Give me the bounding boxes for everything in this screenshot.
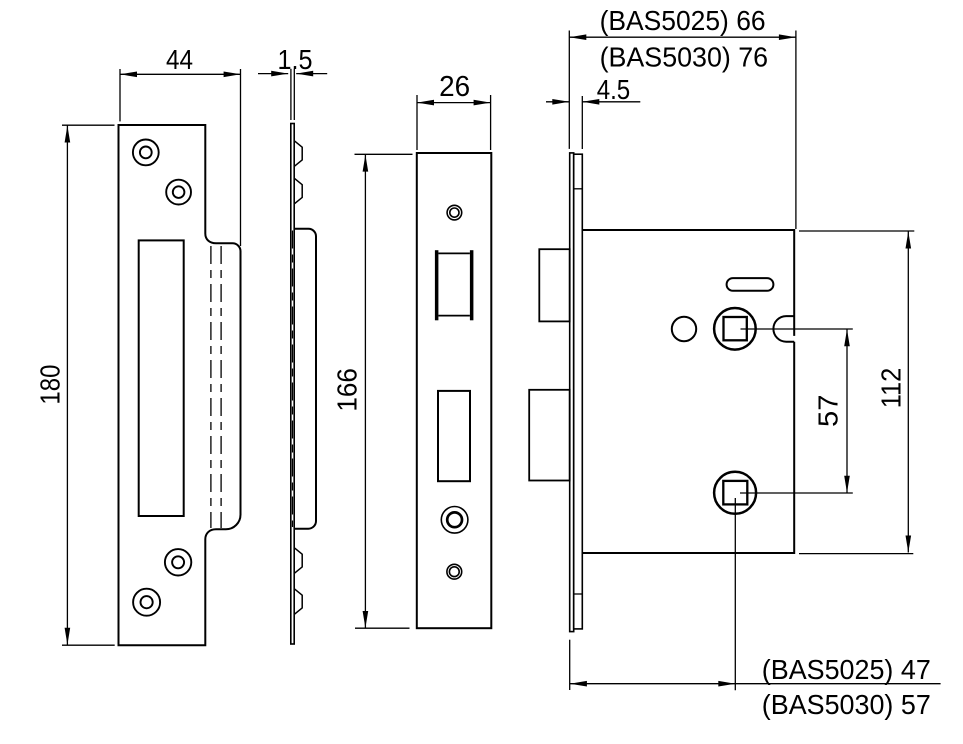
svg-text:57: 57 — [813, 394, 844, 427]
svg-text:180: 180 — [35, 365, 66, 405]
svg-text:(BAS5030) 76: (BAS5030) 76 — [600, 42, 769, 73]
svg-text:(BAS5025) 66: (BAS5025) 66 — [600, 5, 766, 36]
svg-text:166: 166 — [331, 368, 362, 412]
svg-text:(BAS5030) 57: (BAS5030) 57 — [762, 689, 931, 720]
svg-text:(BAS5025) 47: (BAS5025) 47 — [762, 654, 931, 685]
svg-text:1.5: 1.5 — [278, 44, 313, 75]
svg-text:44: 44 — [166, 44, 193, 75]
svg-text:112: 112 — [875, 368, 906, 409]
svg-text:4.5: 4.5 — [597, 74, 631, 105]
svg-text:26: 26 — [439, 71, 470, 103]
